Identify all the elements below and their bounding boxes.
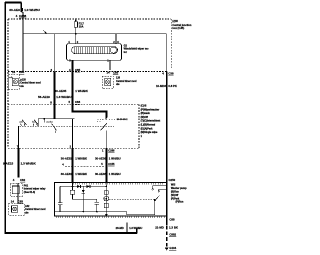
- internal ground bus: [55, 211, 127, 213]
- reference box right (central timer module): [102, 76, 113, 88]
- motor top stub right: [113, 34, 119, 44]
- svg-text:0.8 PK: 0.8 PK: [168, 84, 177, 88]
- svg-text:(C)Hi: (C)Hi: [141, 105, 147, 108]
- washer pump branch: [104, 183, 109, 217]
- connector C280: [169, 217, 175, 221]
- wire label 21-MD 1.3 BK: [155, 226, 179, 230]
- switch position group 1: [20, 120, 27, 126]
- svg-text:(P)Wiper/washer: (P)Wiper/washer: [141, 108, 160, 111]
- left page bus (bold vertical): [4, 2, 6, 234]
- svg-text:1 WH/BK: 1 WH/BK: [75, 172, 87, 176]
- svg-text:30-AE31: 30-AE31: [61, 156, 72, 160]
- diode D3 vertical: [82, 186, 85, 211]
- svg-text:C238: C238: [19, 14, 27, 18]
- feed rail wire: [23, 33, 167, 35]
- ground reference box: [9, 203, 25, 215]
- top edge connector ticks: [73, 183, 163, 185]
- switch drops: [19, 119, 107, 149]
- svg-text:C286: C286: [108, 149, 115, 153]
- reference box right label: [116, 77, 137, 86]
- ground reference label: [25, 205, 46, 214]
- svg-text:(W)Off: (W)Off: [141, 116, 149, 119]
- svg-text:56-AE19: 56-AE19: [38, 95, 50, 99]
- splice S882: [169, 232, 176, 236]
- ground bus bottom (bold horizontal): [5, 232, 137, 234]
- branch wire to wiper switch: [53, 34, 55, 105]
- connector 4 C285: [69, 68, 81, 72]
- connector 14 C383: [11, 199, 24, 203]
- svg-text:C85: C85: [19, 70, 25, 74]
- svg-text:14: 14: [107, 70, 111, 74]
- svg-text:80-30-85-2: 80-30-85-2: [117, 119, 128, 121]
- bold washer wire below switch: [95, 148, 121, 182]
- svg-text:14: 14: [11, 199, 15, 203]
- switch position group 3: [38, 119, 56, 133]
- junction fuse/rail: [75, 33, 77, 35]
- pin 6 at CJB boundary: [51, 68, 53, 72]
- CJB label: [172, 20, 192, 30]
- bottom edge connector ticks: [56, 216, 164, 218]
- bus end hook: [136, 228, 138, 233]
- svg-text:C85: C85: [113, 70, 119, 74]
- switch position group 2: [32, 120, 39, 126]
- svg-text:C250: C250: [169, 178, 176, 182]
- svg-text:tor: tor: [124, 51, 127, 54]
- svg-text:1.3 BK: 1.3 BK: [169, 226, 179, 230]
- svg-text:G104: G104: [169, 246, 176, 250]
- fuse F2.7: [74, 19, 77, 44]
- svg-text:9-AE15: 9-AE15: [3, 162, 14, 166]
- svg-text:C155: C155: [108, 162, 115, 166]
- internal line 2: [73, 198, 97, 200]
- diode D2: [87, 185, 90, 188]
- svg-text:1 WH/BK: 1 WH/BK: [75, 89, 89, 93]
- diode D1: [77, 185, 80, 188]
- svg-text:C83: C83: [75, 100, 81, 104]
- svg-text:28-MD: 28-MD: [116, 226, 124, 230]
- svg-text:10-MD35: 10-MD35: [156, 84, 168, 88]
- switch travel dashed line: [20, 125, 115, 127]
- fuse label: [79, 22, 85, 28]
- ground wire right (bold): [165, 72, 169, 251]
- ground G104: [169, 246, 176, 250]
- wire from bus to C238 pin 4: [21, 3, 23, 72]
- dashed link to park switch: [109, 198, 155, 200]
- connector 14 C285 left: [12, 70, 25, 74]
- connector C250: [169, 178, 176, 182]
- wiper motor box: [67, 44, 122, 60]
- bold wiper wire below switch: [61, 145, 87, 183]
- svg-text:C85: C85: [75, 68, 81, 72]
- bus wire label 28-MD 1.3 WH/BK: [116, 222, 143, 233]
- motor label: [124, 44, 149, 53]
- svg-text:Windshield wiper mo: Windshield wiper mo: [124, 48, 149, 51]
- interval relay label: [24, 184, 46, 193]
- reference box left label: [20, 78, 41, 87]
- svg-text:C: C: [117, 40, 119, 44]
- wire label 30-AE9 1.0 WH/BU: [9, 8, 40, 12]
- svg-text:1.0 WH/BU: 1.0 WH/BU: [24, 8, 40, 12]
- inline connector dashed line: [62, 162, 106, 166]
- motor pin 3 wire (bold run circuit): [69, 59, 72, 105]
- svg-text:1.3 WH/BU: 1.3 WH/BU: [129, 226, 142, 230]
- motor pin labels top: [68, 40, 79, 44]
- svg-text:30-AE36: 30-AE36: [95, 156, 106, 160]
- capacitor C2: [95, 199, 100, 211]
- ground wire label 0.8 PK: [156, 84, 177, 88]
- wiper switch dashed box: [8, 105, 139, 149]
- svg-text:(P)Run: (P)Run: [176, 200, 184, 203]
- switch contacts right: [97, 118, 115, 131]
- svg-text:1 WH/BU: 1 WH/BU: [109, 172, 121, 176]
- switch common line: [38, 105, 74, 120]
- run wire jog inside switch: [73, 105, 107, 118]
- svg-text:21-MD: 21-MD: [155, 226, 164, 230]
- left switch output wire (bold): [3, 145, 37, 182]
- reference box left (central timer module): [8, 75, 19, 90]
- power bus bar top-left: [5, 2, 22, 4]
- svg-text:C82: C82: [20, 178, 26, 182]
- switch legend: [141, 105, 161, 138]
- svg-text:C83: C83: [18, 199, 24, 203]
- internal node line: [60, 186, 107, 188]
- svg-text:14: 14: [12, 70, 16, 74]
- motor connector capsule: [72, 47, 118, 54]
- svg-text:(See 81-6): (See 81-6): [24, 191, 35, 194]
- CJB dashed box: [8, 19, 171, 148]
- interval relay dashed box: [10, 183, 22, 203]
- svg-text:(2)W: (2)W: [172, 20, 178, 23]
- wiper motor assembly box: [55, 183, 167, 216]
- switch internal label: [117, 119, 128, 121]
- svg-text:(D)(A)Park: (D)(A)Park: [141, 127, 153, 130]
- motor pin 1 wire: [107, 59, 110, 70]
- connector 5 C283: [69, 100, 81, 104]
- connector 14 C385 right: [107, 70, 119, 74]
- svg-text:30-AE35: 30-AE35: [55, 89, 67, 93]
- svg-text:1.3 WH/BK: 1.3 WH/BK: [21, 162, 37, 166]
- svg-text:30-AE36: 30-AE36: [95, 172, 106, 176]
- svg-text:C882: C882: [169, 232, 176, 236]
- flow arrow on rail: [43, 30, 46, 33]
- pin 8 at switch: [50, 100, 52, 104]
- rail drop right side: [166, 34, 168, 72]
- park switch legend: [171, 183, 187, 203]
- svg-text:(M)Single wipe: (M)Single wipe: [141, 131, 158, 134]
- svg-text:30-AE31: 30-AE31: [61, 172, 72, 176]
- capacitor C1: [58, 186, 62, 211]
- svg-text:box (CJB): box (CJB): [172, 27, 184, 30]
- svg-text:C38: C38: [168, 72, 174, 76]
- connector C338 top: [162, 72, 174, 76]
- run wire into assembly: [70, 183, 74, 200]
- svg-text:C88: C88: [169, 217, 175, 221]
- connector label 4 C238: [16, 14, 27, 18]
- svg-text:1.3 WH/BU: 1.3 WH/BU: [56, 95, 71, 99]
- park switch contacts: [127, 186, 166, 215]
- svg-text:30-AE9: 30-AE9: [9, 8, 20, 12]
- svg-text:(L)(B)Normal: (L)(B)Normal: [141, 124, 156, 127]
- wire label 56-AE19 1.3 WH/BU: [38, 95, 71, 99]
- svg-text:(B)wash: (B)wash: [141, 112, 151, 115]
- svg-text:(T)(C)Intermittent: (T)(C)Intermittent: [141, 120, 161, 123]
- svg-text:10A: 10A: [79, 25, 84, 28]
- svg-text:c c l e: c c l e: [47, 122, 54, 124]
- wire label 30-AE35 1 WH/BK: [55, 89, 89, 93]
- svg-text:1 WH/BU: 1 WH/BU: [109, 156, 121, 160]
- svg-text:1 WH/BK: 1 WH/BK: [75, 156, 87, 160]
